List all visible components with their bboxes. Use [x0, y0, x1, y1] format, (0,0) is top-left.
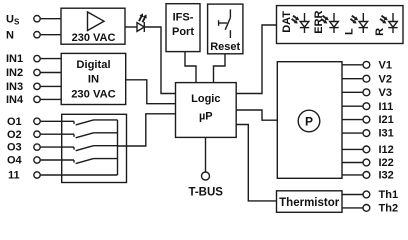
terminal O1: [7, 116, 40, 128]
terminal I31: [363, 128, 394, 140]
wire logic to thermistor: [236, 125, 276, 201]
wire IN1: [40, 58, 61, 60]
terminal I22: [363, 157, 394, 169]
terminal IN3: [6, 81, 40, 93]
relay output box: [62, 114, 127, 182]
wire IFS-Port to logic: [185, 52, 196, 83]
terminal Us: [6, 13, 40, 26]
svg-text:O4: O4: [7, 155, 23, 167]
LED indicator: [137, 13, 147, 32]
svg-text:I22: I22: [379, 157, 394, 169]
terminal V2: [363, 73, 392, 85]
svg-text:µP: µP: [199, 110, 213, 122]
wire V2: [342, 78, 363, 80]
svg-text:O3: O3: [7, 142, 22, 154]
terminal V3: [363, 87, 392, 99]
wire I11: [342, 105, 363, 107]
svg-text:IN2: IN2: [6, 67, 23, 79]
svg-text:T-BUS: T-BUS: [188, 186, 223, 198]
svg-text:US: US: [6, 13, 20, 26]
terminal 11: [8, 170, 40, 182]
terminal IN4: [6, 94, 40, 106]
relay contact 2: [74, 133, 118, 138]
wire relay box to logic: [118, 114, 176, 146]
wire O3: [40, 146, 74, 148]
svg-text:230 VAC: 230 VAC: [72, 32, 116, 44]
svg-text:IFS-: IFS-: [173, 11, 194, 23]
terminal T-BUS: [188, 172, 223, 198]
wire V3: [342, 91, 363, 93]
relay common bus: [117, 120, 119, 175]
wire N to power box: [40, 34, 61, 36]
wire O4: [40, 159, 74, 161]
svg-text:IN: IN: [88, 74, 99, 86]
terminal IN2: [6, 67, 40, 79]
relay contact 1: [74, 120, 118, 125]
wire Th1: [342, 194, 363, 196]
logic microprocessor box: [176, 83, 237, 138]
wire Th2: [342, 207, 363, 209]
svg-text:I31: I31: [379, 128, 394, 140]
wire logic to LED box: [236, 25, 276, 94]
svg-text:V2: V2: [379, 73, 392, 85]
svg-text:I12: I12: [379, 144, 394, 156]
svg-text:O2: O2: [7, 129, 22, 141]
svg-text:Reset: Reset: [210, 41, 240, 53]
relay contact 4: [74, 159, 118, 164]
svg-text:Digital: Digital: [76, 59, 110, 71]
svg-text:ERR: ERR: [313, 11, 325, 34]
terminal O2: [7, 129, 40, 141]
wire IN2: [40, 72, 61, 74]
svg-text:V1: V1: [379, 59, 392, 71]
power supply box 230 VAC: [61, 8, 125, 44]
svg-text:IN4: IN4: [6, 94, 24, 106]
wire IN4: [40, 98, 61, 100]
terminal N: [6, 29, 40, 41]
wire I32: [342, 174, 363, 176]
LED R: [380, 13, 398, 33]
wire power box to LED: [125, 26, 137, 28]
terminal I32: [363, 170, 394, 182]
IFS-Port box: [166, 4, 200, 52]
svg-text:P: P: [305, 114, 313, 128]
svg-text:L: L: [344, 28, 356, 35]
wire 11 common: [40, 174, 117, 176]
wire I12: [342, 148, 363, 150]
LED L: [350, 13, 368, 33]
terminal I21: [363, 114, 394, 126]
relay contact 3: [74, 146, 118, 151]
svg-text:IN3: IN3: [6, 81, 23, 93]
svg-text:I21: I21: [379, 114, 394, 126]
terminal I11: [363, 101, 393, 113]
wire I31: [342, 132, 363, 134]
svg-text:230 VAC: 230 VAC: [71, 89, 116, 101]
svg-text:I32: I32: [379, 170, 394, 182]
wire logic to T-BUS: [205, 137, 207, 172]
wire O2: [40, 133, 74, 135]
svg-text:N: N: [6, 29, 14, 41]
svg-text:11: 11: [8, 170, 20, 182]
LED status box DAT ERR L R: [277, 6, 404, 44]
svg-text:R: R: [374, 28, 386, 36]
measuring box with power metering: [277, 62, 342, 179]
svg-text:Th1: Th1: [379, 189, 399, 201]
svg-text:Port: Port: [172, 26, 194, 38]
terminal Th1: [363, 189, 398, 201]
terminal O4: [7, 155, 40, 167]
LED DAT: [292, 13, 310, 33]
terminal I12: [363, 144, 394, 156]
wire logic to measuring box: [236, 110, 277, 120]
svg-text:IN1: IN1: [6, 53, 23, 65]
terminal IN1: [6, 53, 40, 65]
svg-text:O1: O1: [7, 116, 22, 128]
wire reset to logic: [214, 54, 226, 83]
wire O1: [40, 120, 74, 122]
terminal V1: [363, 59, 392, 71]
thermistor box: [277, 191, 343, 213]
wire LED to logic: [144, 27, 176, 94]
terminal Th2: [363, 203, 398, 215]
digital input box: [61, 53, 126, 104]
reset pushbutton box: [208, 4, 243, 54]
wire digital in to logic: [126, 80, 176, 104]
svg-text:Th2: Th2: [379, 203, 399, 215]
terminal O3: [7, 142, 40, 154]
svg-text:V3: V3: [379, 87, 392, 99]
wire V1: [342, 64, 363, 66]
wire I21: [342, 119, 363, 121]
svg-text:I11: I11: [379, 101, 394, 113]
svg-text:Thermistor: Thermistor: [279, 197, 340, 209]
svg-text:DAT: DAT: [281, 11, 293, 33]
wire Us to power box: [40, 18, 61, 20]
LED ERR: [321, 13, 339, 33]
svg-text:Logic: Logic: [191, 93, 220, 105]
wire I22: [342, 162, 363, 164]
wire IN3: [40, 85, 61, 87]
